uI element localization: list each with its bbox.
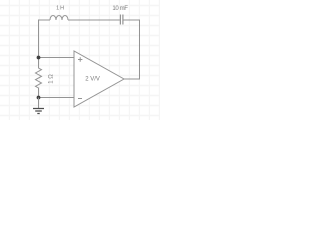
- resistor 1 Ohm: [36, 58, 42, 98]
- capacitor 10 mF: [120, 15, 123, 25]
- node junction dot bottom: [37, 96, 41, 100]
- op-amp plus input marking: [78, 57, 82, 61]
- wire inverting input: [39, 97, 75, 99]
- op-amp 2 V/V: [74, 51, 124, 107]
- svg-text:2 V/V: 2 V/V: [85, 77, 100, 83]
- svg-text:10 mF: 10 mF: [112, 6, 128, 12]
- wire inductor to capacitor: [68, 19, 120, 21]
- wire left vertical + top segment to inductor: [39, 20, 51, 58]
- ground: [33, 109, 44, 114]
- inductor 1 H: [50, 16, 68, 20]
- node junction dot top: [37, 56, 41, 60]
- wire non-inverting input: [39, 57, 75, 59]
- svg-text:1 H: 1 H: [56, 6, 64, 12]
- op-amp minus input marking: [78, 98, 82, 100]
- wire capacitor to right corner, down right side to op-amp output: [123, 20, 139, 79]
- svg-text:1 Ω: 1 Ω: [49, 74, 55, 84]
- ground stem: [38, 98, 40, 109]
